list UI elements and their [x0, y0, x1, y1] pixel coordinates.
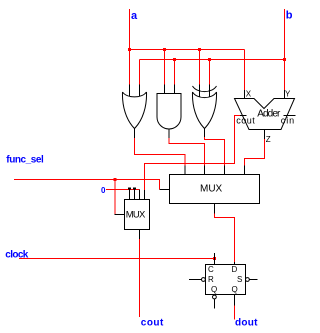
node junction a-bus mid2 — [198, 48, 201, 51]
svg-text:Adder: Adder — [257, 109, 281, 120]
wire adder cout to small mux in4 — [145, 116, 241, 191]
flipflop U7 Qbar pin bubble — [213, 295, 217, 299]
svg-text:S: S — [237, 275, 242, 284]
wire dout net vertical — [234, 306, 236, 320]
adder U4 Y input pin — [284, 90, 286, 99]
node junction func_sel — [114, 178, 117, 181]
small mux U6 input pins — [130, 190, 145, 200]
svg-text:func_sel: func_sel — [6, 155, 44, 166]
wire drop b to XOR in2 — [209, 60, 211, 85]
wire drop a to XOR in1 — [199, 50, 201, 85]
flipflop U7 S pin bubble — [246, 278, 250, 282]
wire drop b to AND in2 — [174, 60, 176, 85]
svg-text:Y: Y — [285, 90, 291, 99]
node junction b-bus mid2 — [208, 58, 211, 61]
or-gate U1 output pin — [134, 129, 136, 139]
svg-text:C: C — [208, 265, 214, 274]
node junction a-bus mid1 — [163, 48, 166, 51]
svg-text:b: b — [286, 10, 293, 22]
small mux U6 body — [125, 200, 150, 230]
and-gate U2 body — [157, 94, 181, 130]
wire AND output to mux in2 — [169, 138, 205, 166]
node junction clock at C — [213, 257, 216, 260]
flipflop U7 R pin — [189, 279, 202, 281]
adder U4 Z output pin — [264, 130, 266, 140]
flipflop U7 D pin — [234, 262, 236, 265]
wire cout net vertical — [139, 239, 141, 317]
flipflop U7 body — [206, 265, 246, 295]
wire drop b to OR in2 — [139, 60, 141, 85]
mux U5 input pins — [185, 166, 245, 175]
wire drop a to AND in1 — [164, 50, 166, 85]
svg-text:MUX: MUX — [200, 184, 223, 195]
and-gate U2 input pins — [165, 85, 175, 94]
svg-text:X: X — [246, 90, 252, 99]
small mux U6 output pin — [139, 230, 141, 240]
flipflop U7 S pin — [249, 279, 257, 281]
wire func_sel horizontal — [14, 180, 160, 190]
svg-text:cout: cout — [236, 116, 255, 126]
adder U4 X input pin — [244, 90, 246, 99]
svg-text:a: a — [131, 10, 138, 22]
wire a vertical — [129, 9, 131, 85]
wire adder Z to mux in4 — [245, 139, 265, 166]
flipflop U7 C pin — [214, 253, 216, 265]
xor-gate U3 output pin — [204, 129, 206, 138]
svg-text:Q: Q — [211, 285, 217, 294]
small mux U6 input pin caps — [128, 188, 131, 190]
adder U4 cin pin — [284, 115, 296, 117]
mux U5 select pin — [160, 189, 170, 191]
wire OR output to mux in1 — [135, 138, 186, 166]
xor-gate U3 input pins — [200, 85, 210, 98]
svg-text:Q: Q — [232, 285, 238, 294]
node junction b-bus right — [283, 58, 286, 61]
svg-text:0: 0 — [101, 186, 106, 195]
node junction b-bus mid1 — [173, 58, 176, 61]
and-gate U2 output pin — [168, 129, 170, 138]
wire bus-b horizontal — [140, 59, 285, 61]
adder U4 cout pin — [240, 115, 247, 117]
mux U5 body — [170, 175, 260, 204]
xor-gate U3 body — [192, 92, 216, 129]
mux U5 output pin — [214, 204, 216, 214]
wire mux output to flipflop D — [215, 214, 235, 263]
wire clock horizontal — [19, 258, 215, 260]
svg-text:MUX: MUX — [126, 210, 146, 221]
wire drop a to adder X — [244, 50, 246, 91]
wire constant 0 to small mux — [106, 189, 140, 191]
node junction a-bus left — [128, 48, 131, 51]
svg-text:D: D — [232, 265, 238, 274]
wire XOR output to mux in3 — [205, 137, 225, 166]
flipflop U7 R pin bubble — [202, 278, 206, 282]
small mux U6 select pin — [115, 214, 125, 216]
svg-text:dout: dout — [235, 318, 258, 329]
svg-text:R: R — [208, 275, 214, 284]
svg-text:Z: Z — [266, 135, 271, 144]
svg-text:cin: cin — [281, 116, 295, 126]
wire b vertical — [284, 9, 286, 90]
wire func_sel to small mux select — [114, 180, 117, 215]
svg-text:cout: cout — [141, 318, 164, 329]
flipflop U7 Qbar pin — [213, 299, 215, 309]
adder U4 body — [235, 99, 295, 130]
wire bus-a horizontal — [130, 49, 245, 51]
xor-gate U3 extra input arc — [193, 86, 217, 92]
or-gate U1 input pins — [130, 85, 140, 97]
or-gate U1 body — [122, 92, 146, 129]
flipflop U7 Q pin — [234, 295, 236, 306]
